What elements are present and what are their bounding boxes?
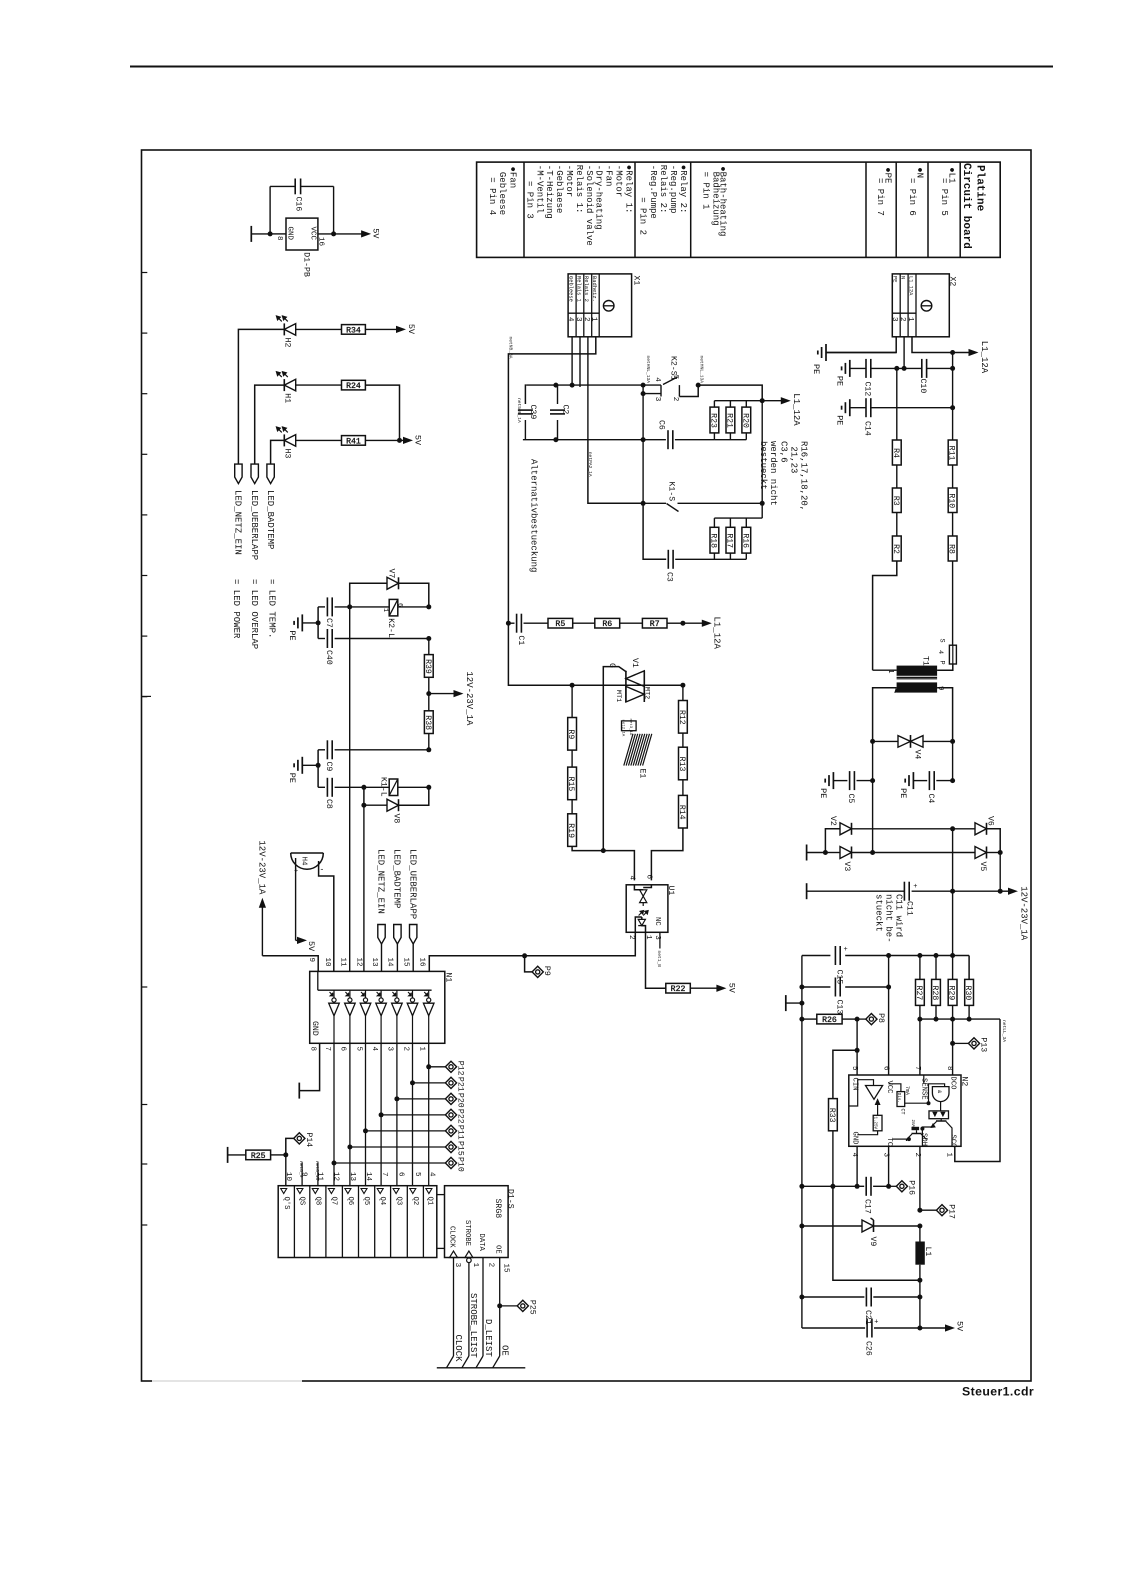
svg-text:1: 1 <box>418 1047 426 1052</box>
svg-text:= LED TEMP.: = LED TEMP. <box>267 579 277 638</box>
svg-text:D_LEIST: D_LEIST <box>483 1319 493 1357</box>
svg-text:5: 5 <box>671 375 679 380</box>
svg-text:1: 1 <box>590 317 598 322</box>
wire T1 primary left <box>873 669 897 671</box>
wire R trio tops <box>714 517 762 519</box>
power arrow 5V at R41 <box>400 439 405 441</box>
svg-text:2: 2 <box>627 935 635 940</box>
svg-text:R19: R19 <box>566 823 575 838</box>
svg-text:3: 3 <box>574 317 582 322</box>
svg-text:Q'S: Q'S <box>282 1197 290 1210</box>
rail K1-S to R16 trio <box>761 503 763 518</box>
svg-text:V2: V2 <box>828 816 837 826</box>
fuse F1 <box>949 645 956 664</box>
svg-text:-Motor: -Motor <box>564 165 574 197</box>
title block table <box>477 162 1001 257</box>
capacitor C9 <box>318 749 325 751</box>
svg-text:C16: C16 <box>294 197 303 212</box>
wire C3 to R trio bottoms <box>675 558 746 560</box>
svg-text:7: 7 <box>913 1066 921 1071</box>
PE ground <box>913 780 927 782</box>
junction at R41 output <box>365 439 399 441</box>
wire pin8 net <box>952 1043 954 1075</box>
resistor R18 <box>710 527 719 553</box>
capacitor C13 row <box>802 986 831 988</box>
svg-text:14: 14 <box>364 1172 372 1182</box>
U1 light arrows <box>639 912 643 916</box>
svg-text:CLOCK: CLOCK <box>453 1335 463 1363</box>
svg-text:C8: C8 <box>324 799 333 809</box>
svg-text:2: 2 <box>582 317 590 322</box>
X2 screw symbol <box>921 301 932 312</box>
svg-text:P17: P17 <box>947 1204 956 1219</box>
svg-text:R24: R24 <box>346 382 361 391</box>
svg-text:LED_NETZ_EIN: LED_NETZ_EIN <box>233 490 243 555</box>
svg-text:netHNL_13A: netHNL_13A <box>645 356 651 384</box>
svg-text:R30: R30 <box>963 986 972 1001</box>
svg-text:5: 5 <box>850 1066 858 1071</box>
wire R19 to U1 pin4 <box>572 846 634 880</box>
resistor R14 <box>682 780 684 796</box>
resistor R12 <box>679 701 688 734</box>
rail triac to R12 chain <box>682 685 684 700</box>
svg-text:net2_1A: net2_1A <box>621 720 625 737</box>
signal wire OE <box>499 1258 501 1357</box>
svg-text:+: + <box>844 946 848 954</box>
svg-text:-M-Ventil: -M-Ventil <box>534 165 544 214</box>
wire 12V rail into regulator <box>952 891 954 955</box>
wire U1 pin1 to R22 <box>646 932 666 988</box>
lower row wire <box>523 439 643 441</box>
svg-text:5V: 5V <box>406 324 416 335</box>
svg-text:-Reg.Pumpe: -Reg.Pumpe <box>648 165 658 219</box>
svg-text:= LED OVERLAP: = LED OVERLAP <box>249 579 259 649</box>
svg-text:R38: R38 <box>423 715 432 730</box>
svg-text:X1: X1 <box>632 276 641 286</box>
diode V6 <box>953 828 975 830</box>
svg-text:R22: R22 <box>671 985 686 994</box>
capacitor C5 row <box>872 741 874 780</box>
IC N2 switching regulator <box>849 1075 961 1146</box>
N1 pin8 to ground terminal <box>299 1043 319 1090</box>
svg-text:H1: H1 <box>283 393 292 403</box>
power arrow 5V at D1-PB <box>334 233 363 235</box>
PE ground <box>302 622 318 624</box>
svg-text:7: 7 <box>380 1172 388 1177</box>
svg-text:7: 7 <box>323 1047 331 1052</box>
svg-text:5V: 5V <box>371 228 381 239</box>
left rail to triac row <box>508 623 683 685</box>
svg-text:V1: V1 <box>630 658 639 668</box>
test point P20 <box>394 1096 399 1101</box>
PE ground <box>826 352 896 354</box>
svg-text:+: + <box>874 1319 878 1327</box>
svg-text:C4: C4 <box>926 794 935 804</box>
diode V8 <box>363 787 365 805</box>
svg-text:12V-23V_1A: 12V-23V_1A <box>464 671 474 726</box>
svg-text:C9: C9 <box>324 762 333 772</box>
svg-text:L1_12A: L1_12A <box>791 393 801 426</box>
wire X1 pin3 down <box>579 337 581 387</box>
resistor R5 <box>524 622 549 624</box>
N2 internal output transistor <box>940 1119 942 1121</box>
svg-text:V5: V5 <box>978 862 987 872</box>
svg-text:R28: R28 <box>930 986 939 1001</box>
resistor R41 <box>296 439 342 441</box>
svg-text:12: 12 <box>354 958 362 967</box>
diode V7 <box>350 583 387 607</box>
svg-text:R15: R15 <box>566 777 575 792</box>
svg-text:●Relay 1:: ●Relay 1: <box>623 165 633 214</box>
feedback row wire <box>920 1018 1000 1020</box>
terminal bar N2 <box>785 995 787 1011</box>
svg-text:CT: CT <box>900 1109 906 1115</box>
diode V5 <box>873 852 975 854</box>
N2 internal sense transistor <box>912 1127 920 1130</box>
svg-text:-Dry-heating: -Dry-heating <box>594 165 604 230</box>
resistor R23 <box>713 433 715 440</box>
svg-text:10: 10 <box>323 958 331 968</box>
svg-text:CLOCK: CLOCK <box>448 1226 456 1248</box>
wire T1 secondary right <box>937 688 953 742</box>
wire pin7 net <box>919 1019 921 1075</box>
test point P13 <box>952 1019 954 1043</box>
connector X1 <box>568 274 632 337</box>
svg-text:Q6: Q6 <box>346 1197 354 1206</box>
wire rectifier verticals <box>952 829 954 891</box>
terminal bar <box>250 226 252 242</box>
svg-text:werden nicht: werden nicht <box>768 441 778 506</box>
svg-text:R7: R7 <box>650 620 660 629</box>
svg-text:4: 4 <box>628 876 636 881</box>
svg-text:R23: R23 <box>708 413 717 428</box>
svg-text:3: 3 <box>386 1047 394 1052</box>
svg-text:13: 13 <box>370 958 378 968</box>
svg-text:C39: C39 <box>528 405 537 420</box>
T1 secondary phase arrow <box>896 687 902 692</box>
wire X2 pin1 to L1_12A <box>912 337 953 353</box>
svg-text:NC: NC <box>653 917 661 926</box>
resistor R21 <box>729 433 731 440</box>
svg-text:LED_UEBERLAPP: LED_UEBERLAPP <box>407 849 417 919</box>
wire R2 to transformer <box>873 561 897 670</box>
svg-text:V8: V8 <box>392 814 401 824</box>
wire T1 secondary left <box>873 688 897 742</box>
mains row wire <box>526 384 661 386</box>
svg-text:K1-L: K1-L <box>379 777 388 797</box>
svg-text:-Fan: -Fan <box>604 165 614 187</box>
svg-text:3: 3 <box>653 397 661 402</box>
D1-S output cell labels <box>281 1189 287 1194</box>
svg-text:V4: V4 <box>913 750 922 760</box>
svg-text:PE: PE <box>834 376 844 386</box>
svg-text:C5: C5 <box>846 794 855 804</box>
svg-text:P13: P13 <box>979 1037 988 1052</box>
wire X1 pin1 to left rail <box>508 337 595 623</box>
svg-text:GND: GND <box>851 1132 859 1145</box>
top rule <box>130 66 1053 68</box>
wire pin2 rail <box>919 1146 921 1210</box>
gate wire of V1 <box>603 667 626 851</box>
svg-text:P12: P12 <box>456 1061 465 1076</box>
svg-text:MT1: MT1 <box>614 690 622 702</box>
capacitor C26 row <box>802 1327 865 1329</box>
svg-text:P10: P10 <box>456 1157 465 1172</box>
svg-text:R13: R13 <box>677 757 686 772</box>
faded bottom border segment <box>152 1380 302 1383</box>
svg-text:-Geblaese: -Geblaese <box>554 165 564 214</box>
svg-text:R21: R21 <box>724 413 733 428</box>
test point P8 <box>857 1018 866 1020</box>
svg-text:C10: C10 <box>918 379 927 394</box>
svg-text:R17: R17 <box>724 533 733 548</box>
resistor R7 <box>620 622 643 624</box>
capacitor C6 <box>643 439 666 441</box>
svg-text:P25: P25 <box>527 1300 536 1315</box>
svg-text:Gebleese: Gebleese <box>497 167 507 216</box>
svg-text:K2-L: K2-L <box>386 618 395 638</box>
resistor R26 <box>799 1017 804 1022</box>
svg-text:= Pin 5: = Pin 5 <box>939 167 949 216</box>
svg-text:LED_BADTEMP: LED_BADTEMP <box>392 849 402 908</box>
capacitor C39 <box>524 385 527 404</box>
svg-text:R6: R6 <box>602 620 612 629</box>
resistor chain R4 R3 R2 <box>896 368 898 440</box>
svg-text:-Reg.pump: -Reg.pump <box>668 165 678 214</box>
svg-text:13: 13 <box>348 1172 356 1182</box>
signal wire STROBE_LEIST <box>468 1263 470 1356</box>
capacitor C15 row <box>802 955 831 957</box>
signal wire CLOCK <box>453 1258 455 1357</box>
D1-S clock wedge <box>450 1251 458 1258</box>
drawing border frame <box>142 150 1032 1381</box>
capacitor C17 <box>857 1185 864 1187</box>
capacitor C8 <box>317 750 319 788</box>
svg-text:PE: PE <box>834 415 844 425</box>
svg-text:10: 10 <box>284 1172 292 1182</box>
svg-text:5V: 5V <box>306 941 316 952</box>
connector pin LED_BADTEMP <box>267 464 274 484</box>
resistor R6 <box>573 622 595 624</box>
svg-text:4: 4 <box>653 377 661 382</box>
svg-text:= Pin 3: = Pin 3 <box>524 165 534 219</box>
diode V2 <box>840 823 852 835</box>
N2 internal comparator <box>866 1086 883 1100</box>
connector pin LED_UEBERLAPP <box>251 464 258 484</box>
N2 internal driver box <box>929 1111 949 1119</box>
svg-text:Dis.: Dis. <box>896 1093 901 1103</box>
svg-text:Q8: Q8 <box>313 1197 321 1206</box>
inductor L1 <box>915 1242 924 1265</box>
svg-text:V9: V9 <box>868 1237 877 1247</box>
svg-text:8: 8 <box>275 236 283 241</box>
svg-text:Relais 2: Relais 2 <box>583 276 589 302</box>
svg-text:1.25V: 1.25V <box>873 1117 877 1130</box>
svg-text:6: 6 <box>339 1047 347 1052</box>
svg-text:Relais 1: Relais 1 <box>575 276 581 302</box>
IC D1-PB power pins box <box>286 218 318 250</box>
svg-text:●Fan: ●Fan <box>507 167 517 189</box>
svg-text:R33: R33 <box>827 1108 836 1123</box>
svg-text:netLL_3A: netLL_3A <box>1001 1020 1007 1042</box>
LED H1 symbol <box>283 379 285 391</box>
LED H2 symbol <box>283 323 285 335</box>
svg-text:2: 2 <box>401 1047 409 1052</box>
svg-text:P15: P15 <box>456 1141 465 1156</box>
N2 internal gate <box>932 1087 949 1102</box>
signal wire D_LEIST <box>482 1258 484 1357</box>
svg-text:GND: GND <box>286 227 294 241</box>
svg-text:P14: P14 <box>304 1132 313 1147</box>
svg-text:3: 3 <box>453 1263 461 1268</box>
inverter channel 2 of N1 <box>345 992 348 995</box>
svg-text:R41: R41 <box>346 437 361 446</box>
transformer T1 <box>897 666 938 676</box>
svg-text:Q4: Q4 <box>378 1197 386 1206</box>
N2 internal disable block <box>897 1092 905 1107</box>
svg-text:L1_12A: L1_12A <box>907 276 913 296</box>
resistor R39 <box>428 639 430 655</box>
wire X2 pin3 to PE <box>826 337 896 353</box>
svg-text:PE: PE <box>287 630 297 640</box>
svg-text:P16: P16 <box>906 1180 915 1195</box>
svg-text:Q7: Q7 <box>330 1197 338 1206</box>
svg-text:R8: R8 <box>947 544 956 554</box>
resistor R24 <box>296 384 342 386</box>
diode V9 <box>862 1220 874 1232</box>
svg-text:Q3: Q3 <box>394 1197 402 1206</box>
svg-text:netHNL_13A: netHNL_13A <box>699 356 705 384</box>
wire H2 anode to pin <box>238 329 284 464</box>
svg-text:4: 4 <box>428 1172 436 1177</box>
svg-text:PE: PE <box>898 788 908 798</box>
svg-text:H4: H4 <box>300 857 308 867</box>
svg-text:1: 1 <box>906 317 914 322</box>
svg-text:15: 15 <box>502 1264 510 1274</box>
relay coil K1-L <box>364 786 389 788</box>
svg-text:R4: R4 <box>891 448 900 458</box>
capacitor C16 <box>269 186 271 234</box>
svg-text:= LED POWER: = LED POWER <box>231 579 241 639</box>
resistor R38 <box>424 711 433 734</box>
inverter channel 7 of N1 <box>424 992 427 995</box>
svg-text:16: 16 <box>317 237 325 247</box>
D1-S strobe wedge <box>465 1251 473 1258</box>
test point P15 <box>347 1145 352 1150</box>
svg-text:T1: T1 <box>921 656 930 666</box>
svg-text:R3: R3 <box>891 496 900 506</box>
svg-text:Q1: Q1 <box>426 1197 434 1206</box>
wire R24 to H3 row <box>365 385 399 440</box>
wire VCC to 5V <box>318 233 334 235</box>
N1 output rails to D1-S <box>333 1043 335 1186</box>
svg-text:R20: R20 <box>740 413 749 428</box>
test point P11 <box>363 1128 368 1133</box>
svg-text:-Solenoid valve: -Solenoid valve <box>584 165 594 246</box>
rectifier row V2 V6 <box>872 781 874 853</box>
svg-text:OE: OE <box>499 1345 509 1356</box>
heating element E1 <box>622 721 637 731</box>
svg-text:R12: R12 <box>677 710 686 725</box>
svg-text:4: 4 <box>370 1047 378 1052</box>
svg-text:V7: V7 <box>387 569 396 579</box>
svg-text:P: P <box>938 661 946 665</box>
connector X2 <box>892 274 949 337</box>
svg-text:C7: C7 <box>324 618 333 628</box>
svg-text:11: 11 <box>339 958 347 968</box>
test point P22 <box>379 1112 384 1117</box>
svg-text:GND: GND <box>310 1021 319 1036</box>
svg-text:OE: OE <box>494 1245 502 1254</box>
D1-S pin9 stub <box>301 1162 303 1185</box>
svg-text:R14: R14 <box>677 805 686 820</box>
svg-text:Alternativbestueckung: Alternativbestueckung <box>529 459 539 572</box>
power arrow 5V at R22 <box>690 987 718 989</box>
svg-text:8: 8 <box>945 1066 953 1071</box>
svg-text:P8: P8 <box>876 1013 885 1023</box>
svg-text:STROBE: STROBE <box>463 1220 471 1246</box>
wire resistor tops to L1_12A <box>714 400 762 402</box>
svg-text:D1-S: D1-S <box>506 1189 515 1209</box>
svg-text:V6: V6 <box>986 816 995 826</box>
wire H1 anode to pin <box>255 385 285 464</box>
capacitor C1 <box>506 621 511 626</box>
svg-text:R25: R25 <box>251 1152 266 1161</box>
D1-S pin11 stub <box>317 1162 319 1185</box>
wire P14 node to D1-S pin10 <box>285 1155 287 1186</box>
svg-text:14: 14 <box>386 958 394 968</box>
wire X1 pin2 to K1-S row <box>588 440 643 504</box>
svg-text:1: 1 <box>945 1153 953 1158</box>
svg-text:net3_1A: net3_1A <box>628 719 632 736</box>
wire R7 to node <box>667 622 683 624</box>
svg-text:H3: H3 <box>283 449 292 459</box>
svg-text:C11 wird: C11 wird <box>894 894 904 937</box>
svg-text:Q2: Q2 <box>411 1197 419 1206</box>
wire U1 pin2 to control net <box>525 932 636 956</box>
svg-text:6: 6 <box>396 1172 404 1177</box>
U1 internal LED <box>638 919 645 925</box>
svg-text:N1: N1 <box>444 973 453 983</box>
N1 common rail <box>317 971 319 990</box>
svg-text:Steuer1.cdr: Steuer1.cdr <box>962 1385 1034 1399</box>
svg-text:X2: X2 <box>948 277 957 287</box>
svg-text:PE: PE <box>811 364 821 374</box>
wire supply to N1 pin9 <box>262 956 318 972</box>
svg-text:R11: R11 <box>947 446 956 461</box>
svg-text:6: 6 <box>645 875 653 880</box>
svg-text:2: 2 <box>671 397 679 402</box>
svg-text:C11: C11 <box>904 901 913 916</box>
resistor R34 <box>296 328 342 330</box>
transient suppressor V4 <box>870 739 875 744</box>
svg-text:4: 4 <box>936 650 944 654</box>
wire N1 pin16 to net <box>429 956 524 972</box>
svg-text:LED_UEBERLAPP: LED_UEBERLAPP <box>249 490 259 560</box>
resistor R22 <box>666 983 691 993</box>
U1 pin3 stub <box>659 932 661 948</box>
resistor chain R11 R10 R8 <box>952 353 954 441</box>
svg-text:-Motor: -Motor <box>614 165 624 197</box>
svg-text:DATA: DATA <box>477 1234 485 1252</box>
wire pin6 net <box>888 956 890 1076</box>
svg-text:L1_12A: L1_12A <box>979 341 989 374</box>
svg-text:6: 6 <box>882 1066 890 1071</box>
capacitor C2 <box>557 385 559 404</box>
svg-text:Relais 1:: Relais 1: <box>574 165 584 214</box>
svg-text:P22: P22 <box>456 1109 465 1124</box>
resistor R33 <box>833 1050 857 1098</box>
